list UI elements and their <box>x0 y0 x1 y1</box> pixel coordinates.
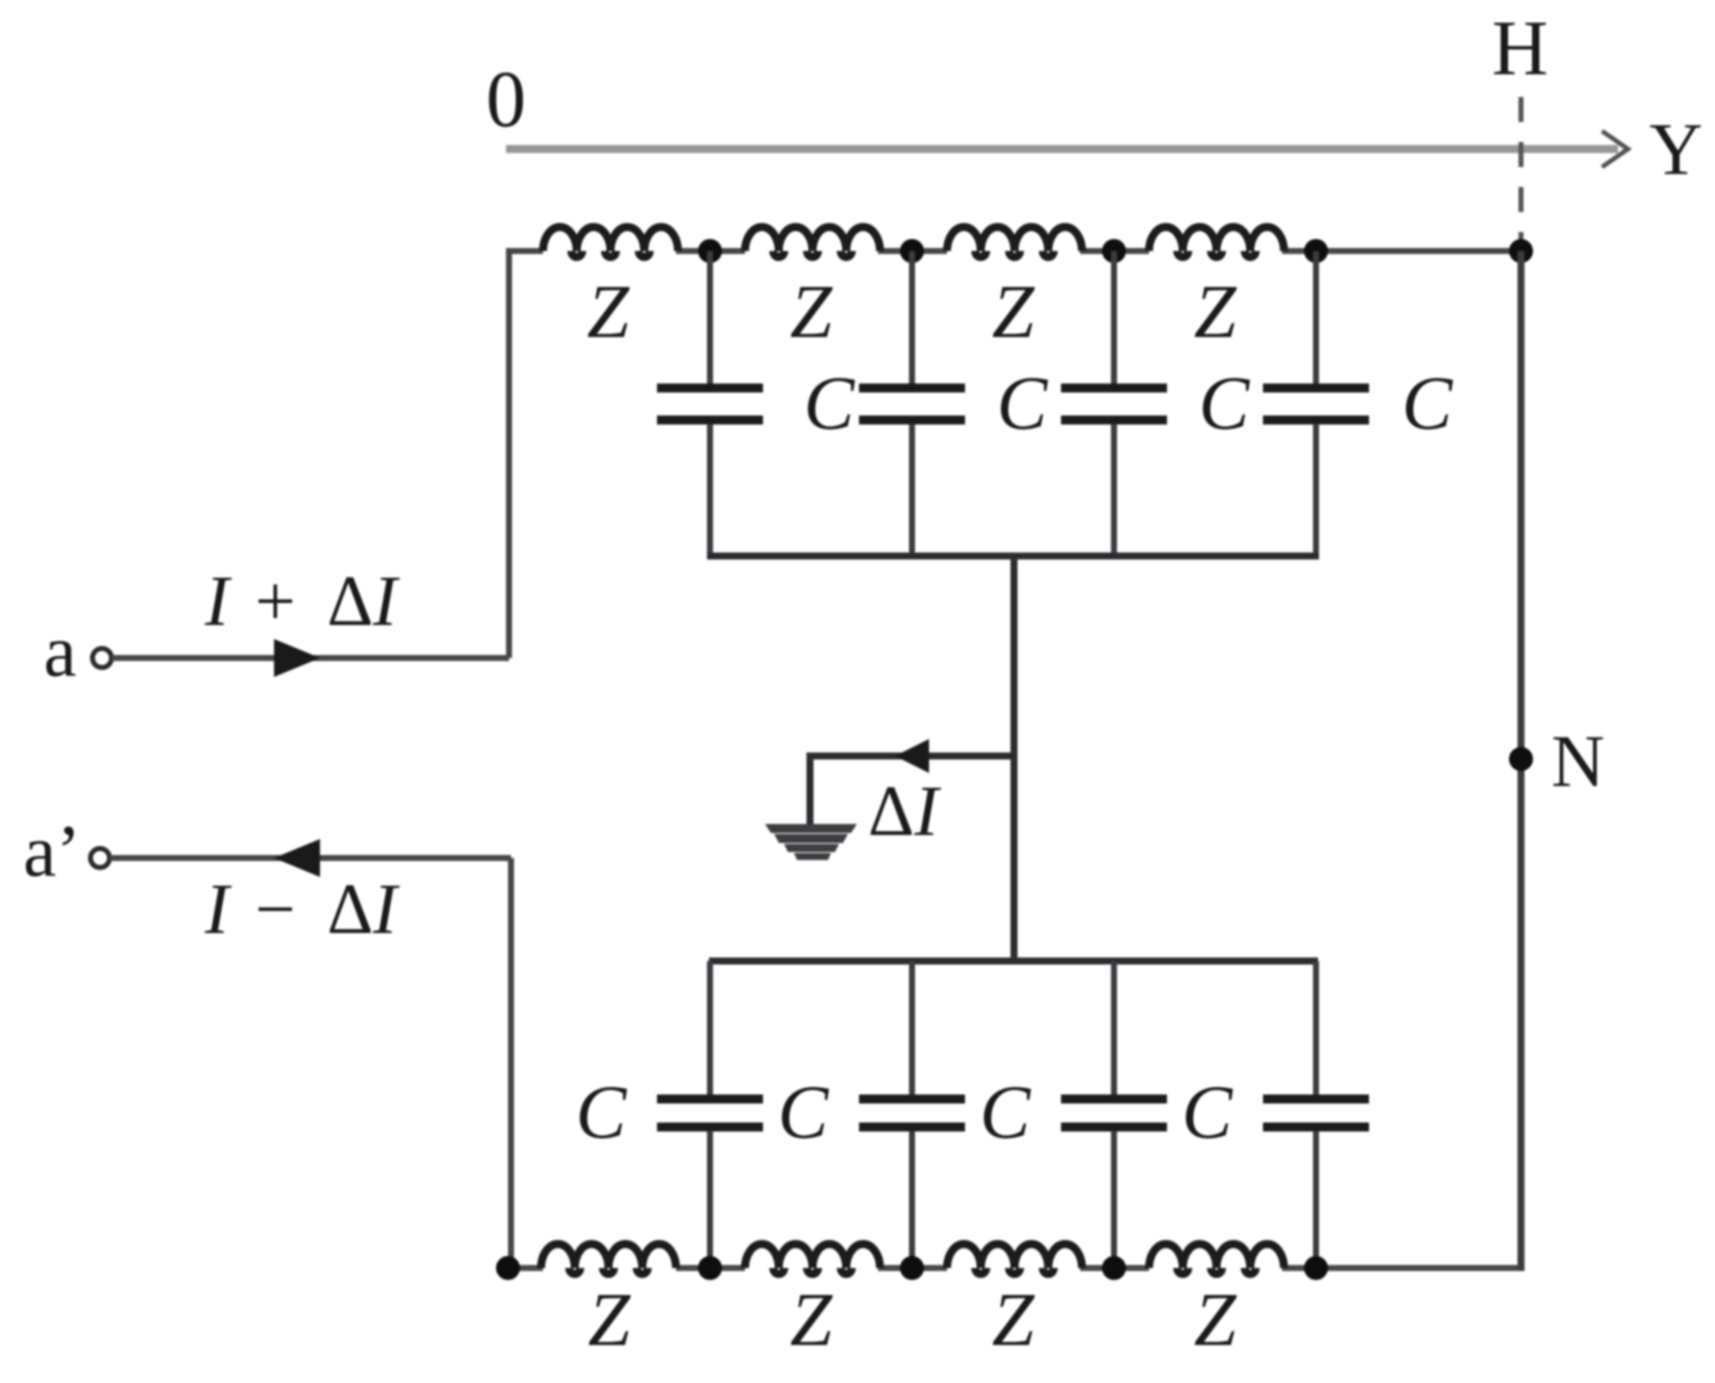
capacitor C3 top <box>1061 251 1167 556</box>
svg-text:C: C <box>997 362 1049 446</box>
inductor Z4 top <box>1114 227 1318 257</box>
svg-text:Z: Z <box>588 1278 631 1362</box>
svg-text:Z: Z <box>587 270 630 354</box>
wire left vertical top (a up to top ladder) <box>509 251 543 658</box>
wire top right <box>1316 248 1521 254</box>
capacitor C5 bottom <box>657 961 763 1268</box>
svg-text:Z: Z <box>790 1278 833 1362</box>
svg-text:ΔI: ΔI <box>868 771 941 851</box>
svg-text:Z: Z <box>790 270 833 354</box>
svg-text:C: C <box>1182 1071 1234 1155</box>
inductor Z1 top <box>543 227 712 257</box>
svg-text:Z: Z <box>1194 1278 1237 1362</box>
capacitor C1 top <box>657 251 763 556</box>
svg-text:Y: Y <box>1649 109 1702 191</box>
svg-text:C: C <box>804 362 856 446</box>
capacitor C4 top <box>1263 251 1369 556</box>
svg-text:C: C <box>1402 362 1454 446</box>
svg-text:C: C <box>576 1071 628 1155</box>
node N dot <box>1509 747 1533 771</box>
svg-text:Z: Z <box>992 1278 1035 1362</box>
junction dot top 3 <box>1102 239 1126 263</box>
svg-text:C: C <box>980 1071 1032 1155</box>
capacitor C8 bottom <box>1263 961 1369 1268</box>
capacitor C6 bottom <box>859 961 965 1268</box>
svg-text:C: C <box>778 1071 830 1155</box>
Y axis arrowhead <box>1602 131 1628 167</box>
current arrow delta I <box>895 739 929 773</box>
right vertical wire <box>1518 251 1525 1271</box>
svg-text:Z: Z <box>992 270 1035 354</box>
junction dot top 4 <box>1304 239 1328 263</box>
svg-text:a: a <box>44 611 77 693</box>
wire left vertical bottom (a' down to bottom ladder) <box>508 858 514 1268</box>
inductor Z8 bottom <box>1114 1244 1318 1274</box>
top bus wire <box>707 553 1319 560</box>
junction dot top 1 <box>698 239 722 263</box>
junction dot bottom 4 <box>1304 1256 1328 1280</box>
junction dot bottom 3 <box>1102 1256 1126 1280</box>
terminal a <box>93 649 112 668</box>
ground tap wire <box>810 756 1014 826</box>
svg-text:C: C <box>1199 362 1251 446</box>
capacitor C2 top <box>859 251 965 556</box>
svg-text:H: H <box>1492 4 1548 91</box>
svg-text:N: N <box>1551 721 1604 803</box>
current arrow I+dI <box>274 639 320 677</box>
inductor Z7 bottom <box>912 1244 1116 1274</box>
Y axis line <box>506 145 1618 153</box>
terminal a' <box>91 849 110 868</box>
inductor Z5 bottom <box>508 1244 712 1274</box>
inductor Z2 top <box>710 227 914 257</box>
svg-text:0: 0 <box>486 56 526 144</box>
wire from a to left vertical <box>112 655 509 661</box>
junction dot bottom 2 <box>900 1256 924 1280</box>
junction dot bottom 1 <box>698 1256 722 1280</box>
junction dot top right <box>1509 239 1533 263</box>
bottom bus wire <box>709 958 1318 965</box>
dashed line at H <box>1519 97 1524 246</box>
wire from a' to left vertical <box>110 855 511 861</box>
inductor Z6 bottom <box>710 1244 914 1274</box>
center vertical wire <box>1011 556 1018 961</box>
junction dot top 2 <box>900 239 924 263</box>
inductor Z3 top <box>912 227 1116 257</box>
ground <box>765 824 857 860</box>
svg-text:a’: a’ <box>23 811 81 893</box>
capacitor C7 bottom <box>1061 961 1167 1268</box>
junction dot bottom left <box>496 1256 520 1280</box>
svg-text:Z: Z <box>1194 270 1237 354</box>
wire bottom right <box>1316 1265 1524 1271</box>
current arrow I-dI <box>274 839 320 877</box>
